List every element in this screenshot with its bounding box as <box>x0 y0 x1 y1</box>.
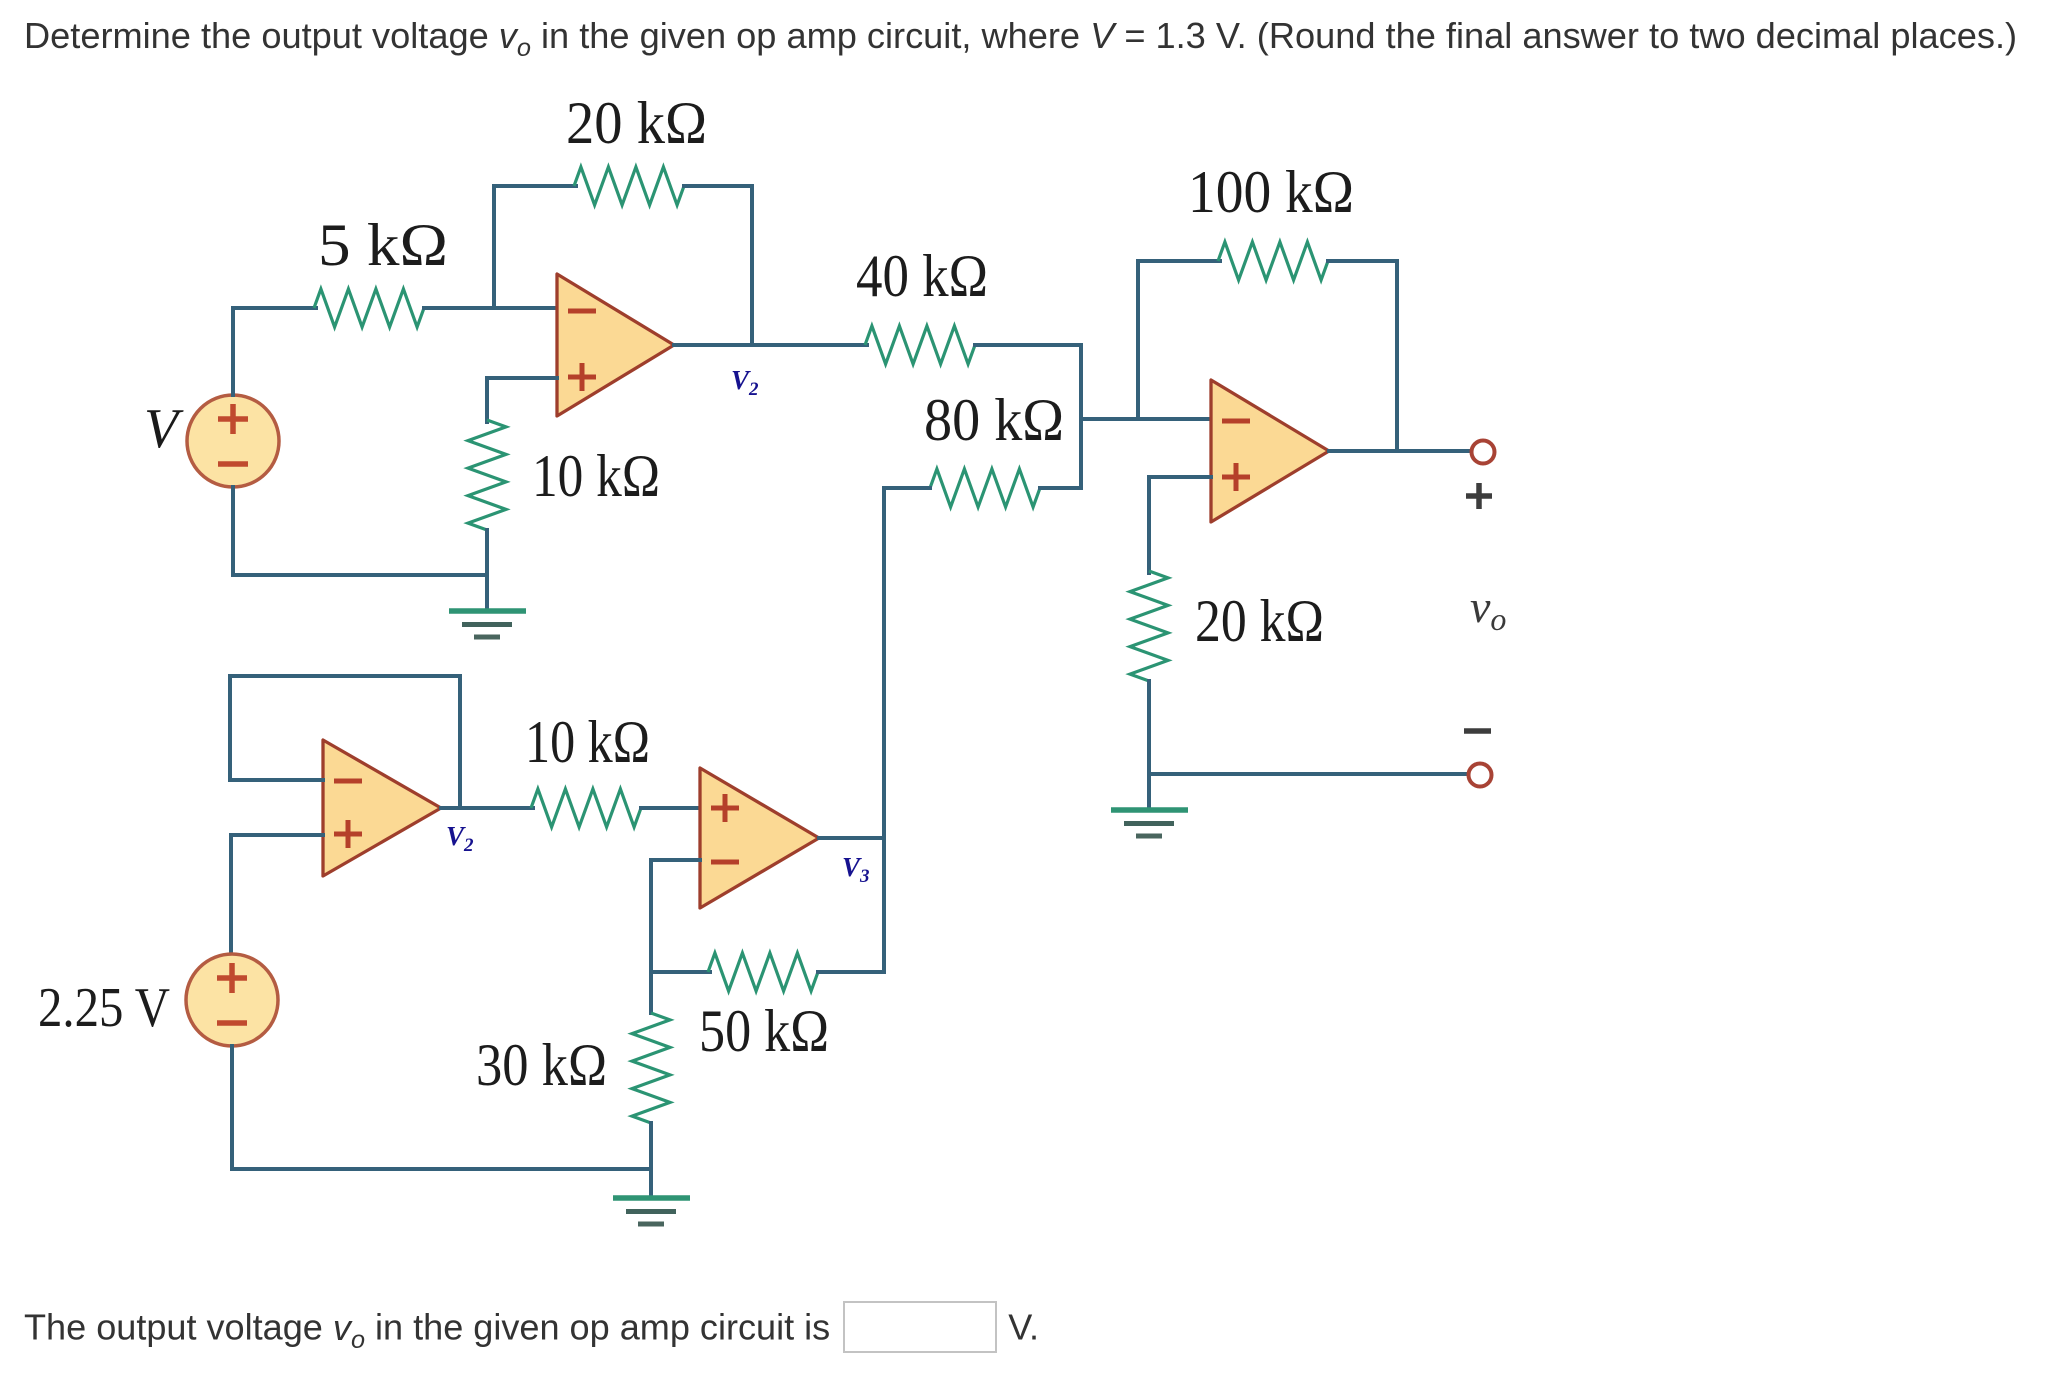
resistor 5k <box>314 289 424 327</box>
wire 50k feedback left lead <box>651 970 710 974</box>
wire U2 feedback left <box>1138 261 1220 419</box>
wire 80k left lead <box>884 486 930 490</box>
wire V- return loop <box>233 487 487 575</box>
wire node to 20k feedback left <box>494 186 576 308</box>
terminal vo- <box>1469 764 1492 787</box>
wire V+ up to 5k resistor <box>233 308 316 395</box>
svg-text:30 kΩ: 30 kΩ <box>476 1032 607 1098</box>
label 10 kOhm (bottom) <box>525 709 650 775</box>
node V2 label <box>731 365 759 400</box>
node V2 label (follower output) <box>446 821 474 856</box>
resistor 20k feedback <box>574 167 684 205</box>
label + (output polarity) <box>1466 483 1492 509</box>
wire U3 noninverting input to source <box>231 835 323 956</box>
wire U4 output to V3 node <box>819 836 884 840</box>
op-amp U3 <box>323 740 441 876</box>
wire 20k to ground <box>1147 681 1151 810</box>
svg-text:5 kΩ: 5 kΩ <box>318 212 448 278</box>
wire U1 output to 40k <box>674 343 867 347</box>
ground (input stage) <box>449 611 526 637</box>
svg-text:10 kΩ: 10 kΩ <box>532 443 660 509</box>
label 10 kOhm <box>532 443 660 509</box>
op-amp U1 <box>557 274 674 416</box>
wire U3 output <box>441 806 533 810</box>
resistor 40k <box>865 326 975 364</box>
svg-text:V: V <box>144 398 184 460</box>
wire source to bottom rail <box>232 1046 651 1169</box>
label 50 kOhm <box>699 998 829 1064</box>
resistor 80k <box>930 469 1040 507</box>
svg-text:80 kΩ: 80 kΩ <box>924 387 1064 453</box>
wire to vo- terminal <box>1149 772 1466 776</box>
wire 50k right lead <box>818 970 884 974</box>
wire 40k corner down <box>975 345 1081 488</box>
voltage source 2.25V <box>186 954 278 1046</box>
ground (bottom stage) <box>613 1198 690 1224</box>
wire U3 feedback loop <box>230 676 460 808</box>
resistor 100k feedback <box>1218 242 1328 280</box>
op-amp U2 <box>1211 380 1329 522</box>
resistor 20k vertical <box>1130 571 1168 681</box>
svg-text:V2: V2 <box>446 821 474 856</box>
wire U2 output to terminal <box>1329 449 1470 453</box>
label 30 kOhm <box>476 1032 607 1098</box>
svg-text:2.25 V: 2.25 V <box>38 977 170 1039</box>
resistor 50k feedback <box>708 953 818 991</box>
resistor 10k horizontal <box>531 789 641 827</box>
label 40 kOhm <box>856 243 988 309</box>
label - (output polarity) <box>1464 728 1491 734</box>
wire 5k to U1 inverting input <box>424 306 557 310</box>
label 20 kOhm <box>566 90 707 156</box>
wire V3 riser <box>882 488 886 972</box>
svg-text:20 kΩ: 20 kΩ <box>1195 588 1324 654</box>
wire summing node to U2 inverting input <box>1081 417 1211 421</box>
label 80 kOhm <box>924 387 1064 453</box>
svg-text:100 kΩ: 100 kΩ <box>1188 159 1354 225</box>
wire 10k to ground <box>485 530 489 611</box>
resistor 30k vertical <box>632 1013 670 1123</box>
wire U2 noninverting input down <box>1149 477 1211 573</box>
wire 20k to U1 output <box>684 186 752 345</box>
terminal vo+ <box>1472 441 1495 464</box>
svg-text:50 kΩ: 50 kΩ <box>699 998 829 1064</box>
svg-text:vo: vo <box>1470 581 1506 637</box>
wire 80k right lead <box>1040 486 1081 490</box>
wire 10k to U4 noninverting input <box>641 806 700 810</box>
label 20 kOhm (right) <box>1195 588 1324 654</box>
label vo <box>1470 581 1506 637</box>
svg-text:10 kΩ: 10 kΩ <box>525 709 650 775</box>
label 2.25 V <box>38 977 170 1039</box>
svg-text:V3: V3 <box>842 852 870 887</box>
wire U1 noninverting input to 10k <box>487 378 557 422</box>
wire U4 inverting input down <box>651 860 700 1013</box>
resistor 10k vertical <box>468 420 506 530</box>
wire 100k to U2 output <box>1328 261 1397 451</box>
voltage source V <box>187 395 279 487</box>
svg-text:V2: V2 <box>731 365 759 400</box>
wire 30k to ground <box>649 1123 653 1198</box>
node V3 label <box>842 852 870 887</box>
op-amp U4 <box>700 768 819 908</box>
svg-text:20 kΩ: 20 kΩ <box>566 90 707 156</box>
label 100 kOhm <box>1188 159 1354 225</box>
svg-text:40 kΩ: 40 kΩ <box>856 243 988 309</box>
label 5 kOhm <box>318 212 448 278</box>
ground (output divider) <box>1111 810 1188 836</box>
